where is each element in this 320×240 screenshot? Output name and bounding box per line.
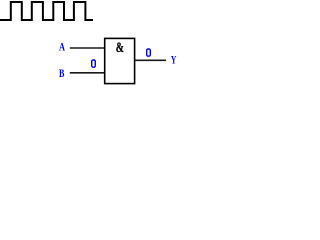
output wire bbox=[135, 59, 167, 61]
svg-text:A: A bbox=[59, 42, 65, 54]
logic value 0 on output bbox=[147, 49, 151, 56]
wire A bbox=[70, 47, 105, 49]
svg-text:&: & bbox=[116, 40, 124, 56]
clock waveform CLK bbox=[0, 2, 93, 20]
AND gate U1 body bbox=[105, 38, 135, 83]
logic value 0 on input B bbox=[92, 60, 96, 67]
wire B bbox=[70, 72, 105, 74]
svg-text:B: B bbox=[59, 68, 65, 80]
svg-text:Y: Y bbox=[171, 55, 177, 67]
